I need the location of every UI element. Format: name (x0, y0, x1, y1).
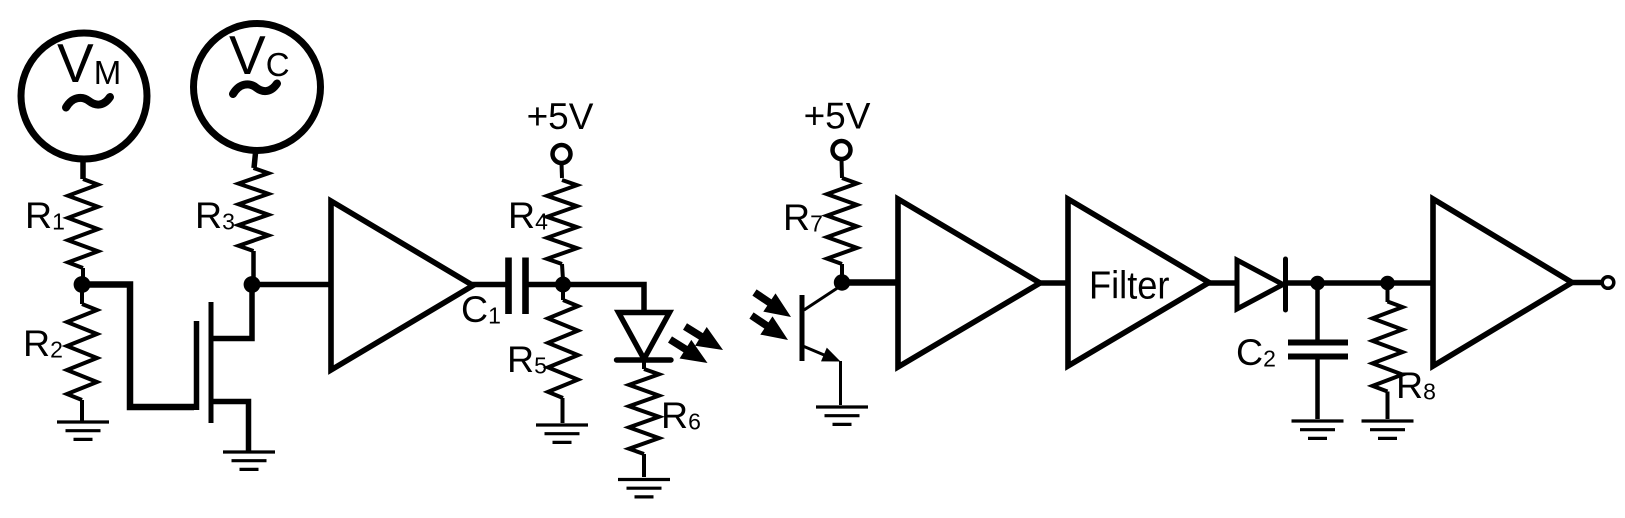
svg-text:R8: R8 (1396, 364, 1436, 406)
svg-text:+5V: +5V (527, 96, 594, 137)
svg-text:R3: R3 (195, 194, 235, 236)
svg-text:R6: R6 (661, 394, 701, 436)
svg-text:R7: R7 (783, 196, 823, 238)
svg-text:R1: R1 (25, 194, 65, 236)
svg-text:Filter: Filter (1089, 265, 1170, 308)
svg-text:C1: C1 (461, 288, 501, 330)
svg-text:R4: R4 (508, 194, 548, 236)
svg-text:+5V: +5V (804, 96, 871, 137)
svg-text:R2: R2 (23, 322, 63, 364)
svg-text:C2: C2 (1236, 331, 1276, 373)
svg-text:R5: R5 (507, 338, 547, 380)
